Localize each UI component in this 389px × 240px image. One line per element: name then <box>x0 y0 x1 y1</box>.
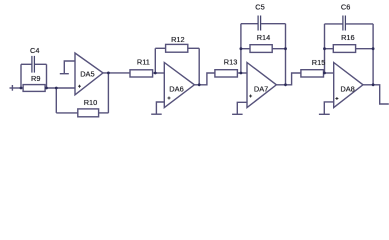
svg-text:R10: R10 <box>84 98 98 107</box>
svg-text:C5: C5 <box>255 3 264 12</box>
svg-text:R12: R12 <box>171 35 185 44</box>
svg-text:R13: R13 <box>224 58 238 67</box>
svg-text:DA6: DA6 <box>169 85 183 94</box>
svg-text:R11: R11 <box>137 58 150 67</box>
svg-text:R15: R15 <box>312 58 326 67</box>
svg-text:R9: R9 <box>31 74 40 83</box>
svg-text:C4: C4 <box>30 46 39 55</box>
svg-text:R14: R14 <box>257 33 271 42</box>
svg-text:DA7: DA7 <box>254 85 268 94</box>
svg-text:DA5: DA5 <box>80 70 94 79</box>
svg-text:C6: C6 <box>341 3 350 12</box>
svg-text:DA8: DA8 <box>340 85 354 94</box>
svg-text:R16: R16 <box>341 33 355 42</box>
